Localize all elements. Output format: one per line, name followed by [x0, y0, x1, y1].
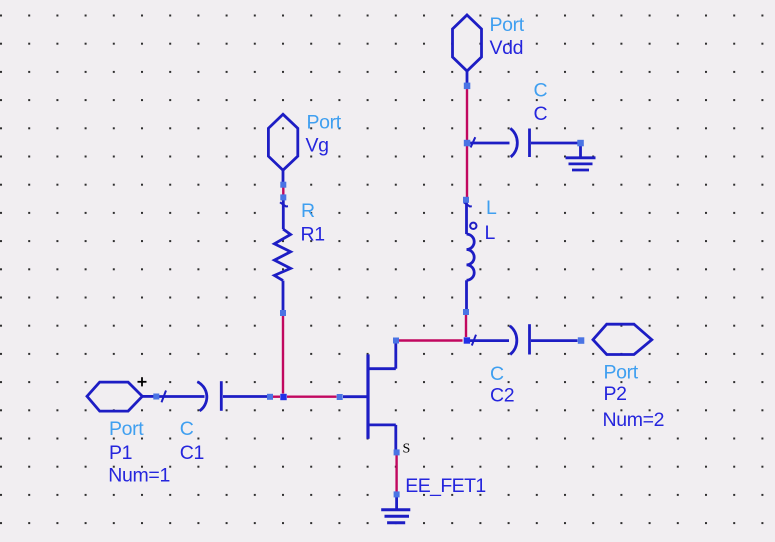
svg-text:C2: C2 — [490, 385, 514, 407]
svg-text:P1: P1 — [109, 442, 132, 464]
svg-text:P2: P2 — [604, 383, 627, 405]
svg-text:C: C — [180, 418, 194, 440]
svg-text:C: C — [490, 363, 504, 385]
svg-text:R1: R1 — [301, 224, 325, 246]
svg-text:Vdd: Vdd — [490, 37, 524, 59]
svg-text:Num=2: Num=2 — [603, 409, 665, 431]
svg-text:L: L — [486, 197, 497, 219]
svg-text:C1: C1 — [180, 442, 204, 464]
svg-text:C: C — [534, 103, 548, 125]
svg-text:Vg: Vg — [306, 135, 329, 157]
svg-text:S: S — [403, 441, 411, 456]
svg-text:C: C — [534, 80, 548, 102]
svg-text:Port: Port — [109, 418, 144, 440]
svg-text:Port: Port — [604, 361, 639, 383]
svg-text:Num=1: Num=1 — [108, 465, 170, 487]
svg-text:Port: Port — [307, 112, 342, 134]
svg-text:R: R — [301, 200, 315, 222]
svg-text:L: L — [485, 222, 496, 244]
svg-text:EE_FET1: EE_FET1 — [405, 475, 485, 497]
svg-text:Port: Port — [490, 14, 525, 36]
